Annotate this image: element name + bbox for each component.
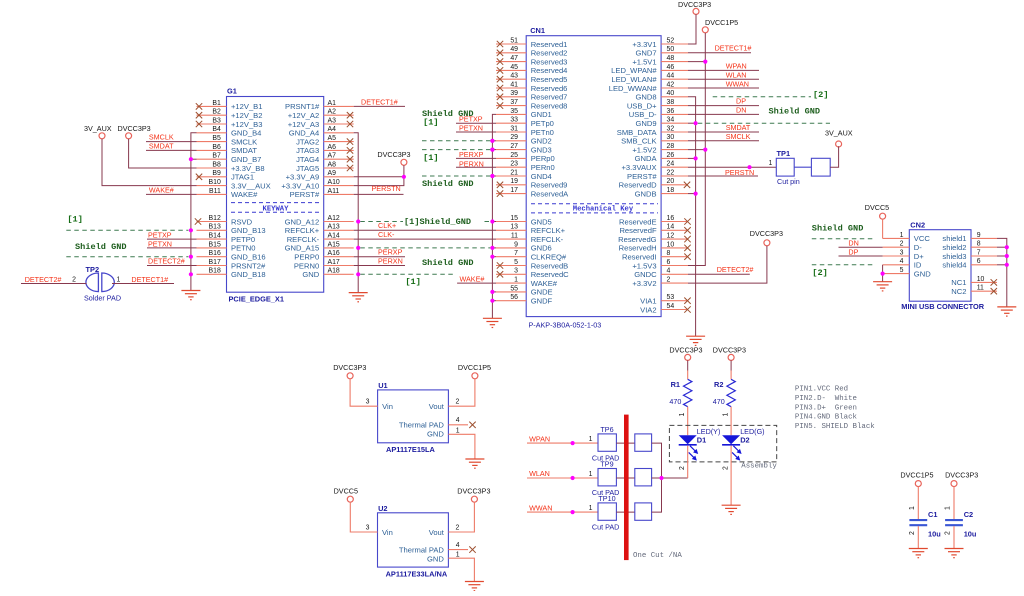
- svg-text:ReservedI: ReservedI: [622, 253, 657, 262]
- svg-text:+3.3V_B8: +3.3V_B8: [231, 164, 265, 173]
- CN1 pin 45 Reserved4 stub: [496, 64, 567, 75]
- svg-text:PIN5. SHIELD Black: PIN5. SHIELD Black: [795, 423, 875, 431]
- svg-text:Vout: Vout: [429, 402, 445, 411]
- svg-text:WPAN: WPAN: [529, 434, 550, 443]
- pin B4 GND_B4 stub: [197, 126, 262, 137]
- net label WPAN (pin 46): [688, 61, 759, 70]
- junction pin 48 +1.5V1: [688, 60, 707, 64]
- svg-text:GNDE: GNDE: [531, 288, 553, 297]
- svg-text:4: 4: [667, 268, 671, 275]
- net label DETECT1# (pin 50): [688, 43, 751, 52]
- shield gnd text top: [422, 109, 474, 119]
- regulator U1 box: [378, 390, 449, 443]
- no-connect X U1 pin 4: [469, 422, 475, 428]
- wire CN1 pin 56 to GND bus: [492, 300, 496, 302]
- bracket [1] mid: [423, 153, 438, 163]
- svg-text:5: 5: [900, 267, 904, 274]
- svg-text:GND6: GND6: [531, 244, 552, 253]
- svg-text:REFCLK-: REFCLK-: [287, 235, 320, 244]
- svg-text:470: 470: [713, 397, 725, 406]
- svg-text:4: 4: [900, 258, 904, 265]
- svg-text:DVCC5: DVCC5: [334, 487, 358, 496]
- svg-text:B17: B17: [209, 259, 221, 266]
- designator U1: [378, 381, 387, 390]
- pin A6 JTAG3 stub: [296, 144, 354, 155]
- part name MINI USB CONNECTOR: [901, 302, 984, 311]
- svg-text:WAKE#: WAKE#: [531, 279, 558, 288]
- svg-text:AP1117E33LA/NA: AP1117E33LA/NA: [386, 569, 448, 578]
- wire DVCC1P5 to C1: [909, 487, 919, 520]
- svg-text:PERn0: PERn0: [531, 163, 555, 172]
- wire DVCC1P5 bus: [688, 33, 705, 266]
- svg-text:WWAN: WWAN: [529, 503, 552, 512]
- svg-text:24: 24: [667, 161, 675, 168]
- net label WWAN (pin 42): [688, 79, 759, 88]
- pin B12 RSVD stub: [197, 215, 253, 226]
- svg-text:Vin: Vin: [382, 528, 393, 537]
- bracket [1] A18 row: [405, 277, 420, 287]
- svg-text:ID: ID: [914, 261, 922, 270]
- svg-text:GND_B13: GND_B13: [231, 226, 266, 235]
- svg-text:ReservedB: ReservedB: [531, 261, 569, 270]
- svg-text:[1]: [1]: [67, 214, 82, 224]
- svg-text:PETP0: PETP0: [231, 235, 255, 244]
- svg-text:23: 23: [510, 161, 518, 168]
- svg-text:A17: A17: [328, 259, 340, 266]
- U1 pin name Thermal PAD: [399, 420, 445, 429]
- pin A12 GND_A12 stub: [285, 215, 354, 226]
- CN2 pin 7 shield3 stub: [942, 249, 997, 260]
- CN2 pin 11 NC2 stub: [951, 285, 997, 296]
- svg-text:A10: A10: [328, 179, 340, 186]
- CN1 pin 25 PERp0 stub: [496, 152, 555, 163]
- U2 pin 2 wire: [448, 502, 474, 532]
- svg-text:14: 14: [667, 224, 675, 231]
- svg-text:D2: D2: [740, 435, 749, 444]
- svg-text:Shield GND: Shield GND: [422, 258, 474, 268]
- svg-text:26: 26: [667, 152, 675, 159]
- svg-text:54: 54: [667, 303, 675, 310]
- CN1 pin 13 REFCLK+ stub: [496, 224, 566, 235]
- wire CN2 shield2 to bus: [997, 246, 1007, 248]
- junction A18: [356, 272, 360, 276]
- capacitor C1 plates: [909, 520, 927, 525]
- no-connect X pin A7: [347, 156, 353, 162]
- svg-text:6: 6: [667, 259, 671, 266]
- svg-text:A12: A12: [328, 215, 340, 222]
- svg-text:15: 15: [510, 215, 518, 222]
- U2 pin name Vout: [429, 528, 445, 537]
- svg-text:PRSNT1#: PRSNT1#: [285, 102, 320, 111]
- svg-text:+12V_A3: +12V_A3: [288, 120, 319, 129]
- svg-text:A2: A2: [328, 109, 337, 116]
- no-connect X CN1 pin 12: [684, 236, 690, 242]
- svg-text:Mechanical Key: Mechanical Key: [573, 206, 634, 214]
- junction CN1 pin 9: [490, 246, 494, 250]
- svg-text:9: 9: [514, 241, 518, 248]
- svg-text:2: 2: [909, 531, 916, 535]
- mechanical key label: [573, 206, 634, 214]
- designator R1: [671, 380, 680, 389]
- svg-text:Reserved3: Reserved3: [531, 57, 568, 66]
- U2 pin 1 wire: [448, 551, 474, 581]
- svg-text:13: 13: [510, 224, 518, 231]
- CN1 pin 5 ReservedB stub: [496, 259, 568, 270]
- svg-text:16: 16: [667, 215, 675, 222]
- label Solder PAD: [84, 293, 121, 302]
- svg-text:DVCC3P3: DVCC3P3: [377, 150, 410, 159]
- svg-text:GND_B4: GND_B4: [231, 129, 261, 138]
- svg-text:3V_AUX: 3V_AUX: [825, 128, 853, 137]
- shield gnd text left: [75, 242, 127, 252]
- svg-text:[2]: [2]: [812, 268, 827, 278]
- regulator U2 box: [378, 513, 449, 567]
- net label DETECT2# (pin 4): [688, 265, 753, 274]
- wire CN1 pin 21 to GND bus: [492, 175, 496, 177]
- net label PETXN (CN1 pin31): [456, 124, 496, 133]
- svg-text:6: 6: [977, 258, 981, 265]
- svg-text:20: 20: [667, 178, 675, 185]
- svg-text:DVCC3P3: DVCC3P3: [118, 124, 151, 133]
- svg-text:SMB_DATA: SMB_DATA: [617, 128, 658, 137]
- power port DVCC5 (CN2): [865, 203, 889, 219]
- svg-text:U2: U2: [378, 504, 387, 513]
- testpoint TP1 pads: [776, 158, 830, 176]
- shield gnd text lower: [422, 258, 474, 268]
- CN1 pin 42 LED_WWAN# stub: [609, 81, 688, 92]
- svg-text:Solder PAD: Solder PAD: [84, 293, 121, 302]
- net label SMDAT (pin 32): [688, 123, 759, 132]
- mechanical key dashed lines: [531, 204, 658, 213]
- CN1 pin 23 PERn0 stub: [496, 161, 555, 172]
- svg-text:A13: A13: [328, 224, 340, 231]
- svg-text:DVCC3P3: DVCC3P3: [669, 345, 702, 354]
- svg-text:ReservedC: ReservedC: [531, 270, 569, 279]
- svg-text:PETp0: PETp0: [531, 119, 554, 128]
- svg-text:TP10: TP10: [598, 494, 615, 503]
- pin A2 +12V_A2 stub: [288, 109, 354, 120]
- CN1 pin 19 Reserved9 stub: [496, 178, 567, 189]
- svg-text:56: 56: [510, 294, 518, 301]
- svg-text:GND: GND: [302, 270, 319, 279]
- svg-text:11: 11: [977, 285, 984, 292]
- svg-text:PIN1.VCC Red: PIN1.VCC Red: [795, 386, 848, 394]
- wire CN1 pin 55 to GND bus: [492, 291, 496, 293]
- svg-text:CLKREQ#: CLKREQ#: [531, 253, 567, 262]
- pin B7 GND_B7 stub: [197, 153, 262, 164]
- svg-text:B13: B13: [209, 224, 221, 231]
- svg-text:PERXN: PERXN: [378, 256, 403, 265]
- svg-text:ReservedA: ReservedA: [531, 189, 569, 198]
- svg-text:7: 7: [977, 249, 981, 256]
- svg-text:Reserved9: Reserved9: [531, 181, 568, 190]
- pin A3 +12V_A3 stub: [288, 117, 354, 128]
- svg-text:WWAN: WWAN: [726, 79, 749, 88]
- wire WWAN to WLAN junction: [652, 478, 662, 512]
- net label WLAN: [527, 469, 598, 478]
- svg-text:PERST#: PERST#: [290, 190, 320, 199]
- CN1 pin 18 GNDB stub: [635, 187, 688, 198]
- svg-text:DETECT2#: DETECT2#: [25, 275, 62, 284]
- CN1 pin 49 Reserved2 stub: [496, 46, 567, 57]
- svg-text:shield2: shield2: [942, 243, 966, 252]
- junction CN1 pin 27: [490, 148, 494, 152]
- pin A1 PRSNT1# stub: [285, 100, 354, 111]
- svg-text:[2]: [2]: [813, 90, 828, 100]
- svg-text:CN2: CN2: [910, 221, 925, 230]
- svg-text:GND_B18: GND_B18: [231, 270, 266, 279]
- svg-text:JTAG3: JTAG3: [296, 146, 319, 155]
- power port DVCC1P5 (CN1 top): [702, 18, 738, 33]
- no-connect X pin A2: [347, 112, 353, 118]
- CN1 pin 30 SMB_CLK stub: [621, 134, 688, 145]
- svg-text:1: 1: [589, 505, 593, 512]
- svg-text:RSVD: RSVD: [231, 217, 253, 226]
- svg-text:NC1: NC1: [951, 278, 966, 287]
- svg-text:CN1: CN1: [530, 26, 545, 35]
- shield dashed GND3 row: [422, 149, 490, 151]
- CN2 pin 9 shield1 stub: [942, 232, 997, 243]
- svg-text:B16: B16: [209, 250, 221, 257]
- part name P-AKP-3B0A-052-1-03: [529, 321, 602, 330]
- ground symbol CN2 shield bus: [997, 307, 1016, 316]
- svg-text:Assembly: Assembly: [741, 462, 777, 470]
- CN1 pin 36 USB_D- stub: [629, 108, 688, 119]
- svg-text:GND7: GND7: [635, 49, 656, 58]
- wire CN1 right GND bus: [688, 97, 696, 336]
- svg-text:Thermal PAD: Thermal PAD: [399, 545, 445, 554]
- pin B13 GND_B13 stub: [197, 224, 266, 235]
- svg-text:R1: R1: [671, 380, 680, 389]
- pin A5 JTAG2 stub: [296, 135, 354, 146]
- CN1 pin 26 GNDA stub: [635, 152, 688, 163]
- junction WLAN: [571, 476, 575, 480]
- wire 3V_AUX to B10: [102, 139, 197, 186]
- svg-text:Shield GND: Shield GND: [75, 242, 127, 252]
- svg-text:1: 1: [589, 471, 593, 478]
- pin 1 label WWAN: [589, 505, 593, 512]
- designator TP2: [86, 265, 100, 274]
- shield dashed CN2 lower: [812, 264, 874, 266]
- CN1 pin 41 Reserved6 stub: [496, 81, 567, 92]
- no-connect X U2 pin 4: [469, 546, 475, 552]
- net label PETXP (CN1 pin33): [456, 114, 496, 123]
- svg-text:GND2: GND2: [531, 137, 552, 146]
- CN2 pin 3 D+ stub: [883, 249, 925, 260]
- svg-text:GND3: GND3: [531, 145, 552, 154]
- junction CN2 shield3: [1005, 254, 1009, 258]
- svg-text:B14: B14: [209, 233, 221, 240]
- testpoint TP6 pad: [598, 434, 616, 451]
- svg-text:1: 1: [909, 506, 916, 510]
- svg-text:GND_A15: GND_A15: [285, 244, 320, 253]
- shield dashed line B13 row: [66, 229, 188, 231]
- svg-text:55: 55: [510, 285, 518, 292]
- no-connect X pin A6: [347, 147, 353, 153]
- ground symbol C2: [945, 549, 964, 558]
- power port DVCC3P3 (R1): [669, 345, 702, 360]
- svg-text:43: 43: [510, 73, 518, 80]
- junction B13: [189, 228, 193, 232]
- no-connect X CN1 pin 14: [684, 227, 690, 233]
- no-connect X pin B12: [195, 218, 201, 224]
- designator D1: [697, 435, 706, 444]
- pin B15 PETN0 stub: [197, 241, 256, 252]
- CN1 pin 4 GNDC stub: [634, 268, 688, 279]
- svg-text:DVCC3P3: DVCC3P3: [750, 229, 783, 238]
- svg-text:53: 53: [667, 294, 675, 301]
- svg-text:3.3V__AUX: 3.3V__AUX: [231, 181, 271, 190]
- ground symbol CN2 left: [873, 282, 892, 291]
- svg-text:39: 39: [510, 90, 518, 97]
- svg-text:SMCLK: SMCLK: [726, 132, 751, 141]
- svg-text:42: 42: [667, 81, 675, 88]
- label Cut PAD TP6: [592, 453, 619, 462]
- svg-text:A18: A18: [328, 268, 340, 275]
- svg-text:PETN0: PETN0: [231, 244, 255, 253]
- svg-text:GND_A4: GND_A4: [289, 129, 319, 138]
- svg-text:VCC: VCC: [914, 234, 931, 243]
- svg-text:TP6: TP6: [600, 425, 613, 434]
- svg-text:PERN0: PERN0: [294, 261, 319, 270]
- wire DVCC3P3 to B8: [129, 139, 197, 168]
- junction pin 28 +1.5V2: [688, 148, 707, 152]
- junction CN1 pin 7: [490, 255, 494, 259]
- bracket [2] top: [813, 90, 828, 100]
- bracket [2] CN2: [812, 268, 827, 278]
- power port 3V_AUX (left): [84, 124, 112, 139]
- ground symbol D2: [722, 505, 741, 514]
- net label CLK+ (A13): [378, 221, 396, 230]
- net label WAKE# (B11): [146, 186, 197, 195]
- svg-text:shield1: shield1: [942, 234, 966, 243]
- no-connect X CN1 pin 8: [684, 254, 690, 260]
- no-connect X CN1 pin 41: [497, 85, 503, 91]
- svg-text:USB_D-: USB_D-: [629, 110, 657, 119]
- svg-text:AP1117E15LA: AP1117E15LA: [386, 445, 436, 454]
- svg-text:2: 2: [456, 399, 460, 406]
- svg-text:DETECT1#: DETECT1#: [715, 43, 752, 52]
- svg-text:CLK-: CLK-: [378, 230, 395, 239]
- ground symbol CN1 left bus: [483, 318, 502, 327]
- svg-text:4: 4: [456, 542, 460, 549]
- svg-text:36: 36: [667, 108, 675, 115]
- CN1 pin 46 LED_WPAN# stub: [611, 64, 688, 75]
- net label PERXP (A16): [354, 248, 405, 257]
- shield dashed A12 row: [360, 221, 490, 223]
- svg-text:1: 1: [945, 506, 952, 510]
- CN1 pin 54 VIA2 stub: [640, 303, 688, 314]
- svg-text:B9: B9: [212, 170, 221, 177]
- svg-text:Vin: Vin: [382, 402, 393, 411]
- shield dashed GND4 row: [422, 175, 490, 177]
- no-connect X CN1 pin 54: [684, 306, 690, 312]
- svg-text:B7: B7: [212, 153, 221, 160]
- svg-text:2: 2: [679, 466, 686, 470]
- svg-text:Shield GND: Shield GND: [422, 179, 474, 189]
- connector CN1 box: [526, 36, 661, 317]
- wire CN2 shield bus: [997, 238, 1007, 307]
- svg-text:JTAG5: JTAG5: [296, 164, 319, 173]
- bracket [1] top: [423, 118, 438, 128]
- wire DVCC3P3 to pin 52: [688, 14, 696, 44]
- svg-text:3: 3: [366, 399, 370, 406]
- CN1 pin 44 LED_WLAN# stub: [611, 73, 688, 84]
- part name PCIE_EDGE_X1: [229, 295, 284, 304]
- pin A10 +3.3V_A10 stub: [281, 179, 353, 190]
- no-connect X pin A5: [347, 138, 353, 144]
- label One Cut /NA: [633, 552, 682, 560]
- svg-text:SMCLK: SMCLK: [231, 137, 257, 146]
- svg-text:+12V_B2: +12V_B2: [231, 111, 262, 120]
- svg-text:CLK+: CLK+: [378, 221, 396, 230]
- svg-text:+3.3V_A10: +3.3V_A10: [281, 181, 319, 190]
- svg-text:5: 5: [514, 259, 518, 266]
- svg-text:Shield GND: Shield GND: [769, 107, 821, 117]
- svg-text:LED_WLAN#: LED_WLAN#: [611, 75, 657, 84]
- note USB pin colours: [795, 386, 875, 431]
- label Cut pin: [777, 177, 800, 186]
- CN1 pin 24 +3.3VAUX stub: [621, 161, 688, 172]
- junction pin 34 GND9: [688, 121, 698, 125]
- svg-text:PETXN: PETXN: [148, 239, 172, 248]
- svg-text:GNDA: GNDA: [635, 154, 658, 163]
- net label DN (CN2 pin2): [839, 239, 883, 248]
- value 10u (C2): [964, 530, 977, 539]
- svg-text:A9: A9: [328, 170, 337, 177]
- svg-text:shield4: shield4: [942, 261, 966, 270]
- wire DVCC3P3 to A9 A10: [354, 165, 404, 185]
- shield gnd text mid: [422, 179, 474, 189]
- svg-text:21: 21: [510, 169, 518, 176]
- pin A11 PERST# stub: [290, 188, 354, 199]
- label LED(G): [740, 427, 764, 436]
- svg-text:VIA2: VIA2: [640, 305, 656, 314]
- svg-text:A4: A4: [328, 126, 337, 133]
- svg-text:3V_AUX: 3V_AUX: [84, 124, 112, 133]
- wire WWAN through cut bar: [616, 511, 634, 513]
- ground symbol C1: [909, 549, 928, 558]
- svg-text:G1: G1: [227, 87, 237, 96]
- svg-text:PETXP: PETXP: [459, 114, 483, 123]
- svg-text:8: 8: [977, 241, 981, 248]
- shield dashed A15 row: [360, 247, 490, 249]
- CN2 pin 5 GND stub: [883, 267, 932, 278]
- wire R2 to LED: [723, 407, 732, 436]
- svg-text:DVCC5: DVCC5: [865, 203, 889, 212]
- svg-text:35: 35: [510, 108, 518, 115]
- svg-text:ReservedH: ReservedH: [619, 244, 657, 253]
- svg-text:B11: B11: [209, 188, 221, 195]
- junction CN2 shield2: [1005, 245, 1009, 249]
- junction A15: [356, 246, 360, 250]
- CN1 pin 27 GND3 stub: [496, 143, 552, 154]
- U1 pin name Vout: [429, 402, 445, 411]
- CN1 pin 52 +3.3V1 stub: [632, 37, 688, 48]
- CN2 pin 6 shield4 stub: [942, 258, 997, 269]
- wire D1 cathode down: [679, 446, 688, 478]
- junction CN1 pin 55: [490, 290, 494, 294]
- power port DVCC1P5 (C1): [900, 471, 933, 487]
- CN1 pin 40 GND8 stub: [635, 90, 688, 101]
- svg-text:1: 1: [589, 436, 593, 443]
- svg-text:DVCC1P5: DVCC1P5: [900, 471, 933, 480]
- svg-text:3: 3: [366, 524, 370, 531]
- svg-text:LED_WWAN#: LED_WWAN#: [609, 84, 658, 93]
- svg-text:SMB_CLK: SMB_CLK: [621, 137, 656, 146]
- svg-text:DETECT1#: DETECT1#: [131, 275, 168, 284]
- svg-text:+1.5V2: +1.5V2: [632, 145, 656, 154]
